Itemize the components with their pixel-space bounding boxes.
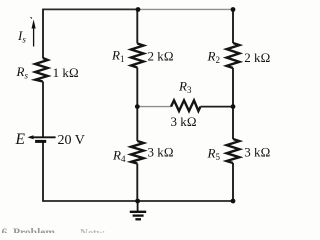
wire right branch upper bbox=[232, 9, 234, 43]
resistor R1 bbox=[131, 44, 144, 68]
wire right branch lower bbox=[232, 163, 234, 201]
wire left vertical middle bbox=[42, 82, 44, 138]
ground bbox=[130, 201, 146, 219]
wire middle branch lower bbox=[136, 164, 138, 202]
svg-text:20 V: 20 V bbox=[58, 133, 85, 148]
svg-text:1 kΩ: 1 kΩ bbox=[53, 65, 79, 80]
resistor R5 bbox=[227, 139, 240, 163]
node bottom right bbox=[231, 199, 236, 204]
node top middle bbox=[136, 7, 141, 12]
resistor R2 bbox=[227, 43, 240, 68]
current arrow Is bbox=[31, 17, 36, 47]
wire left vertical lower bbox=[42, 142, 44, 202]
svg-text:Netw: Netw bbox=[80, 227, 104, 233]
wire right branch mid bbox=[232, 68, 234, 139]
resistor Rs bbox=[35, 58, 48, 82]
node mid left bbox=[135, 104, 140, 109]
svg-text:3 kΩ: 3 kΩ bbox=[148, 145, 174, 160]
wire top right segment bbox=[138, 8, 233, 10]
battery E bbox=[27, 135, 55, 141]
wire top left segment bbox=[43, 8, 138, 10]
svg-text:6. Problem: 6. Problem bbox=[2, 227, 56, 233]
node mid right bbox=[231, 104, 236, 109]
svg-text:E: E bbox=[15, 131, 26, 148]
svg-text:2 kΩ: 2 kΩ bbox=[244, 50, 270, 65]
wire bottom bbox=[43, 200, 233, 202]
wire middle branch upper bbox=[136, 9, 138, 43]
wire middle branch mid bbox=[136, 68, 138, 142]
wire R3 left lead bbox=[137, 106, 171, 108]
svg-text:2 kΩ: 2 kΩ bbox=[148, 49, 174, 64]
resistor R3 bbox=[171, 100, 200, 111]
resistor R4 bbox=[131, 141, 144, 164]
svg-text:3 kΩ: 3 kΩ bbox=[171, 114, 197, 129]
wire R3 right lead bbox=[200, 106, 233, 108]
node top right bbox=[231, 7, 236, 12]
node bottom ground bbox=[135, 199, 140, 204]
svg-text:3 kΩ: 3 kΩ bbox=[244, 145, 270, 160]
wire left vertical upper bbox=[42, 9, 44, 58]
